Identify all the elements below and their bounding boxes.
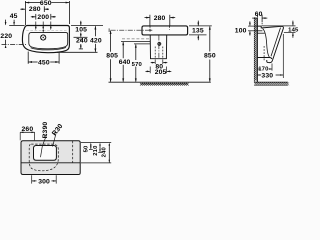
drain fitting and hidden pipe (pedestal): [155, 36, 163, 59]
svg-text:100: 100: [235, 28, 247, 35]
shelf step line (bottom view): [21, 162, 80, 164]
svg-text:210: 210: [93, 145, 99, 156]
dimension 80 drain pipe width: [151, 59, 168, 70]
dimension 260 (bottom view top): [20, 126, 34, 140]
hidden mounting line (elevation): [122, 38, 150, 40]
dimension 300 bowl width (bottom view): [32, 175, 57, 185]
wall section with hatching (side view): [254, 18, 257, 85]
dimension 45 (plan left): [9, 13, 24, 26]
tap hole dashes (elevation): [150, 26, 170, 29]
svg-text:280: 280: [29, 6, 41, 13]
svg-text:240: 240: [76, 37, 88, 44]
svg-text:640: 640: [119, 59, 131, 66]
floor line (elevation): [109, 81, 211, 83]
plan view inner bowl outline: [26, 30, 68, 50]
dimension 145 rim front height (side): [263, 21, 300, 38]
dimension 280 tap spacing (elevation): [145, 15, 176, 26]
horizontal centerline (plan): [2, 44, 27, 46]
dimension 50 (bottom view right): [81, 142, 111, 152]
svg-text:50: 50: [84, 145, 90, 152]
dimension 135 rim height (elevation): [189, 21, 212, 41]
svg-text:280: 280: [154, 15, 166, 22]
floor hatching (elevation): [140, 83, 189, 86]
dimension 210 (bottom view right): [93, 143, 102, 156]
svg-text:200: 200: [37, 14, 49, 21]
hidden drain dash (side view): [263, 46, 265, 61]
dimension 240 (bottom view right): [81, 143, 111, 163]
washbasin front elevation body: [142, 26, 188, 35]
svg-text:45: 45: [10, 13, 18, 20]
dimension 450 bowl width (plan bottom): [28, 52, 59, 67]
svg-text:450: 450: [38, 59, 50, 66]
dimension 570 drain height: [132, 44, 151, 82]
dimension 205 pedestal width: [146, 67, 172, 76]
hidden bowl outline dashed (bottom view): [29, 144, 58, 171]
dimension 240 (plan right): [76, 37, 88, 49]
dimension 650 overall width (plan): [25, 0, 69, 25]
svg-text:420: 420: [90, 37, 102, 44]
dimension 805 tap deck height: [106, 28, 118, 82]
dimension 200 tap hole spacing (plan): [31, 14, 56, 33]
svg-text:300: 300: [38, 179, 50, 186]
dimension 105 (plan right): [71, 21, 103, 38]
dimension 330 overall depth (side): [257, 34, 283, 79]
dimension 420 (plan right): [57, 26, 102, 53]
svg-text:105: 105: [75, 27, 87, 34]
dimension 170 basin bottom depth (side): [257, 64, 272, 73]
washbasin plan view outline (top view): [22, 26, 69, 53]
svg-text:650: 650: [40, 0, 52, 7]
svg-text:330: 330: [261, 72, 273, 79]
tap hole with crosshair (plan view): [41, 35, 46, 40]
basin underside body (section view): [21, 141, 80, 175]
svg-text:260: 260: [22, 126, 34, 133]
svg-text:60: 60: [255, 11, 263, 18]
washbasin side profile: [257, 26, 283, 63]
svg-text:850: 850: [204, 53, 216, 60]
dimension 640 overflow height: [119, 42, 151, 83]
floor section with hatching (side view): [254, 82, 289, 85]
tap centerline and cross (elevation): [111, 29, 153, 32]
radius R390 callout (bottom view): [41, 122, 49, 158]
svg-text:145: 145: [288, 28, 299, 34]
tap hole dash (side view): [261, 23, 263, 26]
svg-text:570: 570: [132, 62, 143, 68]
svg-text:220: 220: [0, 33, 12, 40]
dimension 280 tap offset (plan): [20, 6, 49, 13]
dimension 220 (plan left): [0, 20, 12, 48]
radius R30 callout (bottom view): [51, 123, 65, 147]
hidden shelf edge dashed (bottom view): [72, 141, 74, 163]
svg-text:R390: R390: [42, 122, 49, 139]
semi-pedestal (front elevation): [150, 35, 167, 59]
svg-text:205: 205: [155, 69, 167, 76]
svg-text:135: 135: [192, 28, 204, 35]
dimension 850 rim height from floor: [204, 26, 216, 82]
dimension 100 (side view left): [235, 21, 258, 35]
bowl drain cavity (bottom view): [34, 146, 57, 161]
dimension 60 tap offset from wall (side): [252, 11, 267, 22]
svg-text:805: 805: [106, 53, 118, 60]
svg-text:240: 240: [102, 146, 108, 157]
